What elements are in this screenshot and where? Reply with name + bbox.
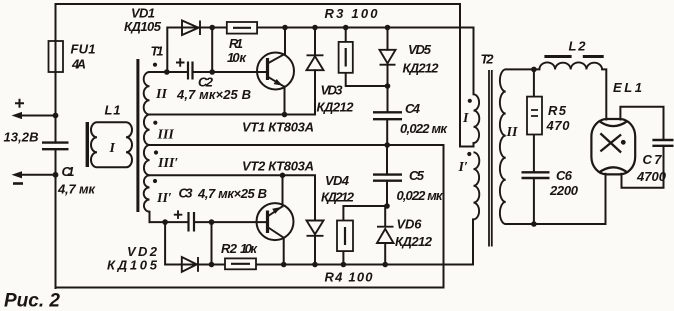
node R3/VD5/C4 junction	[385, 83, 391, 89]
node VD1 cathode rail junction	[209, 25, 215, 31]
svg-text:VT2 КТ803А: VT2 КТ803А	[242, 159, 314, 174]
svg-text:VD5: VD5	[408, 42, 432, 57]
capacitor C6	[522, 172, 550, 178]
node VT2 emitter junction	[280, 173, 286, 179]
capacitor C1	[42, 143, 69, 150]
wire VT2 emitter up	[282, 175, 284, 206]
node VD5 rail junction	[385, 25, 391, 31]
diode VD5	[380, 50, 396, 65]
transformer T2 winding I'	[474, 152, 480, 219]
wire VD5 cathode to C4 node	[387, 65, 389, 87]
node R4 rail junction	[341, 262, 347, 268]
wire VD5 stem from rail	[387, 28, 389, 50]
capacitor C7	[652, 140, 673, 146]
resistor R2	[225, 258, 256, 269]
resistor R4	[337, 221, 353, 252]
wire VT2 collector rail with VD2/R2 and T2 winding I' bottom lead	[165, 219, 473, 264]
svg-text:I: I	[462, 111, 469, 126]
wire T2 secondary top lead to L2	[506, 68, 540, 70]
wire C6 to output bottom rail	[533, 178, 535, 224]
wire VT2 base line right of C3	[194, 221, 268, 223]
wire VT2 base line left of C3	[150, 221, 189, 223]
transistor VT2	[257, 203, 294, 240]
diode VD1	[182, 21, 200, 36]
wire mid rail (T1 winding III-III' tap)	[150, 144, 444, 146]
svg-text:I′: I′	[458, 160, 468, 175]
wire VD2 cathode riser	[211, 222, 213, 264]
inductor L1 winding	[91, 122, 132, 167]
node VD3 rail junction	[312, 25, 318, 31]
node C6 bottom rail junction	[531, 221, 537, 227]
transistor VT1	[257, 53, 294, 90]
node VT1 collector rail junction	[282, 25, 288, 31]
node VD6 rail junction	[382, 262, 388, 268]
capacitor C4	[373, 112, 402, 119]
wire C4 top lead	[387, 86, 389, 112]
wire bottom minus rail	[56, 287, 444, 289]
svg-text:КД105: КД105	[107, 258, 158, 273]
lamp EL1 gas dot	[621, 140, 626, 145]
node T2 winding I polarity dot	[468, 99, 472, 103]
fuse FU1	[49, 41, 64, 72]
node VT2 base line left junction	[162, 219, 168, 225]
wire R3 top stem	[345, 28, 347, 42]
svg-text:II: II	[155, 87, 167, 102]
svg-text:I: I	[109, 141, 116, 156]
svg-text:4,7 мк: 4,7 мк	[57, 182, 96, 197]
node T1 winding III polarity dot	[153, 121, 157, 125]
transformer T2 winding I	[474, 94, 480, 143]
svg-text:13,2В: 13,2В	[4, 130, 39, 145]
svg-text:L2: L2	[569, 39, 587, 54]
wire plus input arrow line	[21, 115, 56, 117]
svg-text:C6: C6	[556, 168, 573, 183]
wire VT1 emitter down	[284, 87, 286, 115]
node VT2 collector rail junction	[281, 262, 287, 268]
svg-text:4700: 4700	[636, 169, 667, 184]
wire VT1 emitter line / T1 winding II-III tap with riser to VD3 anode	[150, 70, 316, 114]
minus sign of input	[13, 182, 23, 185]
svg-text:10 к: 10 к	[227, 50, 247, 65]
inductor L1 core bar	[86, 122, 89, 167]
node R5 top junction	[531, 67, 537, 73]
svg-text:L1: L1	[105, 103, 121, 118]
svg-text:0,022 мк: 0,022 мк	[400, 121, 448, 136]
wire R4 top elbow to VD6/C5 node	[343, 206, 385, 221]
capacitor C3	[189, 212, 195, 232]
C3 plus polarity sign	[174, 210, 183, 219]
node VT1 emitter junction	[282, 112, 288, 118]
plus sign of input	[15, 99, 24, 108]
lamp EL1 bottom electrode	[599, 167, 628, 173]
inductor L2 winding	[539, 62, 602, 69]
wire left supply bus upper (through FU1 to C1 top plate)	[55, 4, 57, 143]
svg-text:4A: 4A	[71, 57, 86, 72]
svg-text:T1: T1	[151, 44, 164, 59]
wire VD3 cathode stem from collector rail	[314, 28, 316, 57]
transformer T1 winding III	[144, 115, 150, 146]
node T1 winding II' polarity dot	[153, 179, 157, 183]
diode VD6	[377, 227, 394, 243]
node VD2 cathode rail junction	[209, 262, 215, 268]
svg-text:0,022 мк: 0,022 мк	[397, 188, 444, 203]
svg-text:4,7 мк×25 В: 4,7 мк×25 В	[197, 186, 267, 201]
transformer T1 winding II'	[144, 175, 150, 211]
wire C4 bottom lead to mid rail	[386, 119, 388, 145]
node VD4 rail junction	[312, 262, 318, 268]
svg-text:R3 100: R3 100	[325, 6, 379, 21]
wire mid emitter rail drop to minus rail	[443, 145, 445, 288]
svg-text:C1: C1	[62, 164, 75, 179]
transformer T2 winding II	[500, 69, 506, 224]
wire top +12V rail from fuse to T2 center tap	[57, 4, 474, 147]
wire VT2 collector down	[283, 238, 285, 265]
transformer T1 winding II	[144, 72, 150, 115]
wire VD4 cathode stem to VT2 collector rail	[314, 236, 316, 265]
wire T2 winding I bottom to center tap	[473, 143, 475, 147]
wire C7 bottom branch to lamp bottom	[622, 146, 664, 188]
wire VD1 cathode riser	[211, 28, 213, 73]
resistor R5	[527, 97, 542, 135]
node C5/VD6/R4 junction	[384, 203, 390, 209]
svg-text:III′: III′	[157, 156, 178, 171]
wire output bottom rail	[506, 223, 606, 225]
resistor R1	[227, 22, 257, 34]
wire VT1 base line right of C2	[193, 71, 268, 73]
wire VD6 bottom stem	[384, 243, 386, 264]
wire lamp bottom to output rail	[605, 174, 607, 224]
lamp EL1 bulb	[591, 119, 635, 174]
svg-text:КД212: КД212	[321, 190, 355, 205]
node minus input junction	[53, 172, 59, 178]
minus terminal arrowhead	[12, 171, 23, 178]
wire minus input arrow line	[21, 174, 56, 176]
diode VD2	[182, 257, 198, 272]
svg-text:VD4: VD4	[325, 173, 350, 188]
svg-text:R5: R5	[548, 103, 567, 118]
wire left supply bus lower (C1 bottom to bottom rail)	[55, 149, 57, 288]
svg-text:КД212: КД212	[403, 61, 440, 76]
svg-text:КД105: КД105	[124, 19, 162, 34]
node VT2 base line right junction	[209, 219, 215, 225]
node T1 winding II polarity dot	[153, 63, 157, 67]
wire VT1 collector to rail	[284, 28, 286, 54]
wire C5 top lead from mid rail	[386, 145, 388, 175]
wire R3 bottom elbow to VD5/C4 node	[346, 73, 388, 86]
node R3 rail junction	[343, 25, 349, 31]
wire C7 top branch from lamp top	[620, 107, 663, 140]
svg-text:II: II	[506, 125, 518, 140]
inductor L2 core dashes	[544, 55, 603, 58]
lamp EL1 top electrode	[599, 121, 628, 127]
svg-text:10 к: 10 к	[240, 241, 258, 256]
lamp EL1 discharge cross	[600, 133, 621, 152]
transformer T1 core	[136, 59, 139, 212]
svg-text:470: 470	[546, 118, 571, 133]
svg-text:КД212: КД212	[317, 100, 355, 115]
svg-text:II′: II′	[156, 191, 172, 206]
node VT1 base line left junction	[164, 69, 170, 75]
node plus input junction	[53, 113, 59, 119]
svg-text:VD6: VD6	[397, 217, 423, 232]
resistor R3	[339, 42, 353, 73]
svg-text:C3: C3	[179, 186, 194, 201]
svg-text:EL1: EL1	[613, 80, 642, 95]
svg-text:T2: T2	[481, 52, 495, 67]
diode VD3	[307, 55, 324, 70]
C2 plus polarity sign	[176, 58, 185, 67]
wire VD6 top stem	[384, 206, 386, 227]
node T2 winding I' polarity dot	[467, 152, 471, 156]
svg-text:C5: C5	[409, 168, 425, 183]
wire R5 to C6	[533, 135, 535, 173]
wire VT1 collector rail with VD1/R1 and T2 winding I top lead	[167, 28, 473, 95]
transformer T1 winding III'	[144, 145, 150, 175]
wire R5 branch from top lead	[533, 69, 535, 96]
plus terminal arrowhead	[12, 112, 23, 119]
diode VD4	[307, 221, 324, 236]
svg-text:C4: C4	[405, 101, 421, 116]
svg-text:VT1 КТ803А: VT1 КТ803А	[242, 120, 314, 135]
svg-text:R1: R1	[229, 36, 243, 51]
svg-text:VD3: VD3	[321, 83, 344, 98]
wire C5 bottom lead to VD6 node	[386, 181, 388, 206]
wire VT2 emitter line / T1 winding III'-II' tap with riser to VD4	[150, 175, 316, 220]
svg-text:2200: 2200	[549, 183, 579, 198]
node VT1 base line right junction	[209, 69, 215, 75]
svg-text:4,7 мк×25 В: 4,7 мк×25 В	[176, 87, 251, 102]
transformer T2 core	[489, 70, 492, 247]
node C4/C5 mid rail junction	[384, 142, 390, 148]
svg-text:КД212: КД212	[395, 234, 433, 249]
wire VT1 base line left of C2	[150, 71, 189, 73]
wire T1 winding II' bottom jog	[149, 212, 151, 222]
svg-text:III: III	[157, 128, 175, 143]
svg-text:Рис. 2: Рис. 2	[4, 291, 60, 311]
svg-text:R2: R2	[221, 241, 238, 256]
wire L2 to lamp top	[602, 69, 606, 119]
svg-text:FU1: FU1	[71, 42, 96, 57]
capacitor C5	[373, 175, 402, 181]
capacitor C2	[188, 62, 193, 80]
svg-text:R4 100: R4 100	[325, 270, 374, 285]
wire R4 bottom stem	[342, 251, 344, 264]
node T1 winding III' polarity dot	[154, 150, 158, 154]
